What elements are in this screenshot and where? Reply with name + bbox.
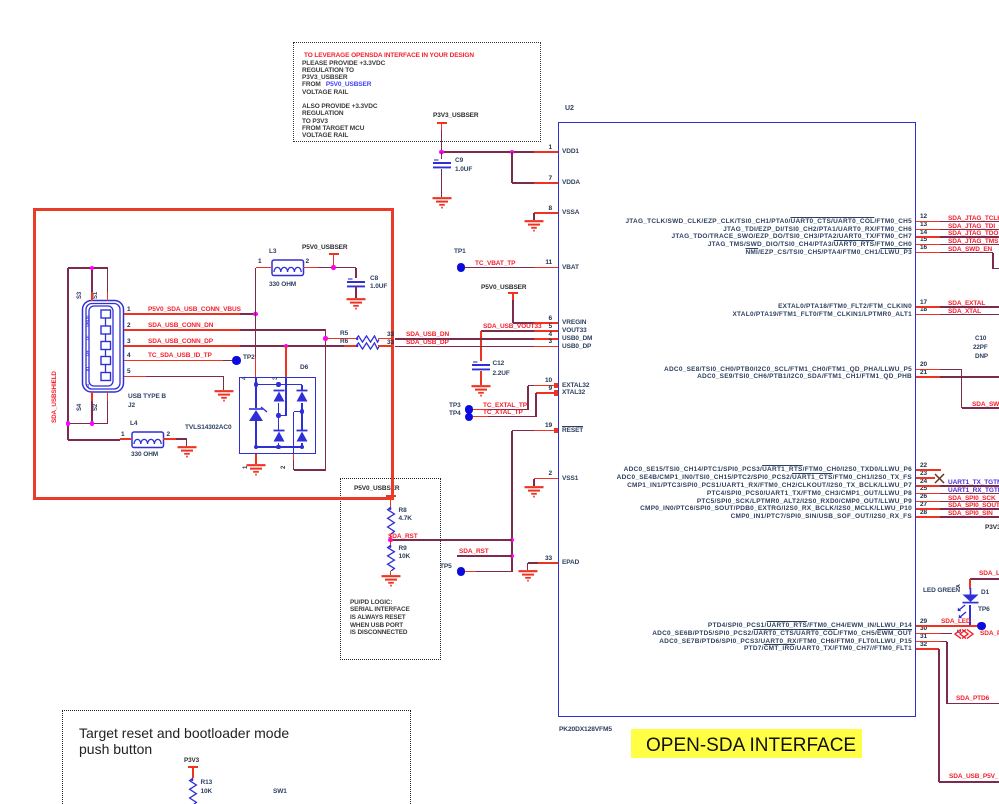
pin name JTAG_TMS [708, 241, 912, 248]
wire TP5 [465, 571, 476, 573]
net label SDA_XTAL [948, 308, 981, 315]
net label SDA_L anode [979, 570, 999, 577]
test point TP2 [232, 356, 240, 364]
inductor L3 [269, 248, 276, 255]
pin stub pin18 [916, 314, 940, 316]
pin number 7 [548, 175, 552, 182]
pin number 20 [920, 361, 927, 368]
wire XTAL32 to TP4 [535, 393, 537, 417]
pin number 23 [920, 470, 927, 477]
pin stub pin31 [916, 641, 941, 643]
connector pin number 3 [127, 338, 131, 345]
pin number 4 [548, 331, 552, 338]
no-connect X pin23 [934, 473, 945, 484]
dashed box target reset pushbutton [62, 710, 411, 804]
pin name VDDA [562, 179, 580, 186]
shield stub S1 top [107, 292, 109, 301]
ground EPAD [517, 570, 539, 584]
pin name EXTAL32 [562, 382, 589, 389]
pin stub VDD1 pin1 [534, 151, 558, 153]
pin stub VBAT pin11 [534, 267, 558, 269]
pin name EPAD [562, 559, 579, 566]
pin stub VSS1 pin2 [534, 478, 558, 480]
net label SDA_USBSHIELD [51, 371, 58, 423]
wire UART1_RX_TGTMCU [940, 493, 999, 495]
wire DN elbow to R5 [325, 330, 327, 339]
wire SDA_RST from divider [391, 539, 513, 541]
pin name CMP0_IN1 [731, 513, 912, 520]
D6 column1 mid link [278, 403, 279, 431]
shield stub S4 bottom [91, 392, 93, 401]
net label SDA_SW [972, 401, 999, 408]
D6 pin 1 stub to ground [255, 454, 257, 464]
inductor L4 [130, 420, 137, 427]
pin stub VOUT33 pin5 [534, 330, 558, 332]
D6 internal left rail [255, 377, 256, 408]
note text block 1 [302, 60, 385, 67]
resistor R6 [340, 338, 348, 345]
pin number 32 [920, 641, 927, 648]
net label SDA_PTD6 [956, 695, 989, 702]
test point TP4 [449, 410, 461, 417]
pin stub at y501.5 [916, 501, 940, 503]
pin number 21 [920, 369, 927, 376]
shield stub S2 bottom [107, 392, 109, 401]
LED D1 anode stub [969, 579, 971, 589]
connector pin label ID [85, 367, 90, 371]
D6 diode 1 top-left [272, 389, 286, 403]
pin name CMP0_IN0 [640, 505, 912, 512]
wire VDDA branch [511, 152, 513, 183]
wire SDA_JTAG_TCLK [940, 221, 999, 223]
net label SDA_JTAG_TMS [948, 238, 998, 245]
pin name VSSA [562, 209, 579, 216]
pin number 12 [920, 213, 927, 220]
connector J2 USB TYPE B symbol [80, 298, 127, 395]
shield left rail SDA_USBSHIELD [67, 268, 69, 440]
pin number 28 [920, 509, 927, 516]
wire TP1 to VBAT [465, 267, 534, 269]
diode array D6 body [239, 377, 316, 454]
wire R8 to R9 [390, 534, 392, 545]
net label TC_SDA_USB_ID_TP [148, 352, 212, 359]
red highlight box USB connector region [33, 208, 394, 500]
shield label S3 [77, 292, 83, 299]
pin stub pin21 [916, 376, 940, 378]
pin stub VSSA pin8 [534, 212, 558, 214]
junction DP/D6 [284, 344, 289, 349]
net label P5V0_SDA_USB_CONN_VBUS [148, 306, 241, 313]
D6 pin number 3 [273, 377, 279, 380]
value 33 R5 [387, 331, 394, 338]
pin name JTAG_TDI [723, 226, 912, 233]
ground VSS1 [523, 486, 545, 500]
pin stub pin32 [916, 648, 939, 650]
note box: dotted instruction box [293, 42, 541, 142]
wire SDA_LED anode [970, 578, 999, 580]
pin stub VREGIN pin6 [534, 322, 558, 324]
pin number 9 [548, 385, 552, 392]
D6 diode 3 top-right [301, 385, 302, 392]
pin name PTD7 [744, 645, 912, 652]
wire SDA_SWD_EN [940, 252, 993, 254]
pin number 8 [548, 205, 552, 212]
LED cathode wire [969, 605, 971, 627]
pin stub pin22 [916, 469, 941, 471]
test point TP6 label [978, 606, 990, 613]
wire L3 branch vertical [255, 268, 257, 315]
ground R9 [380, 575, 402, 589]
wire VSSA to ground [533, 213, 535, 220]
note text red line [304, 52, 474, 59]
net label SDA_USB_CONN_DP [148, 338, 213, 345]
pin number 27 [920, 501, 927, 508]
dashed box PU/PD logic [340, 478, 441, 660]
pin name VREGIN [562, 319, 586, 326]
wire pin4 ID to TP2 [124, 360, 224, 362]
IC U2 body [558, 122, 916, 717]
pin name ADC0_SE7B [659, 638, 912, 645]
connector pin label D+ [85, 351, 90, 356]
pin number 1 [548, 144, 552, 151]
ground C9 [431, 197, 453, 211]
net label SDA_SPI0_SOUT [948, 502, 999, 509]
D6 node dots [254, 382, 258, 386]
D6 column2 mid link [301, 403, 302, 412]
wire pin20 to SDA_SW [940, 369, 962, 371]
wire SDA_EXTAL [940, 306, 999, 308]
pin number 30 [920, 625, 927, 632]
LED D1 [962, 588, 979, 605]
pin name ADC0_SE8 [664, 366, 912, 373]
pin name ADC0_SE6B [652, 630, 912, 637]
pin name EXTAL0 [778, 303, 912, 310]
net label SDA_RST at divider [388, 533, 418, 540]
power label P3V3 partial [985, 524, 999, 531]
net label SDA_USB_CONN_DN [148, 322, 213, 329]
pin stub pin at y221.5 [916, 221, 940, 223]
wire pin1 VBUS [124, 313, 241, 315]
pin stub EPAD pin33 [538, 562, 558, 564]
net label UART1_TX_TGTMCU [948, 479, 999, 486]
pin number 14 [920, 229, 927, 236]
D6 pin number 4 [242, 377, 248, 380]
cathode marker C [957, 629, 963, 633]
net label SDA_SPI0_SIN [948, 510, 993, 517]
wire D6 pin2 elbow [294, 469, 326, 471]
pin number 31 [920, 633, 927, 640]
junction shield bottom left [66, 421, 71, 426]
wire pin3 DP [124, 345, 241, 347]
wire VOUT33 [481, 330, 534, 332]
wire C9 to ground [441, 169, 443, 197]
pin stub pin at y237 [916, 236, 940, 238]
pin number 2 [548, 470, 552, 477]
pin number 16 [920, 244, 927, 251]
note text block 2 [302, 103, 377, 110]
pin stub VDDA pin7 [534, 182, 558, 184]
LED arrows [954, 604, 969, 620]
ground C12 [470, 385, 492, 399]
wire L3 to C8 [318, 267, 356, 269]
ground L4 [176, 446, 198, 460]
pin stub pin16 [916, 252, 940, 254]
junction RESET/SDA_RST rail [510, 538, 515, 543]
wire SDA_SPI0_SIN [940, 516, 999, 518]
wire EXTAL32 to TP3 [528, 385, 534, 387]
ground USB pin5 [213, 390, 235, 404]
refdes J2 [128, 402, 135, 409]
wire C8 to ground [355, 286, 357, 298]
offpage connector symbol [954, 629, 974, 639]
pin stub USB0_DP pin3 [534, 346, 558, 348]
net label SDA_USB_DP [406, 339, 449, 346]
net label SDA_JTAG_TCLK [948, 215, 999, 222]
wire SDA_SPI0_SOUT [940, 508, 999, 510]
wire SDA_JTAG_TDO [940, 236, 999, 238]
resistor R5 [340, 330, 348, 337]
pin name USB0_DP [562, 343, 591, 350]
text target reset title [79, 725, 289, 741]
wire SDA_RST label stub [457, 555, 512, 557]
refdes SW1 [273, 788, 287, 795]
pin number 22 [920, 462, 927, 469]
pin name USB0_DM [562, 335, 592, 342]
pin name XTAL32 [562, 389, 585, 396]
pin stub at y493.5 [916, 493, 940, 495]
pin stub pin23 [916, 477, 935, 479]
text USB TYPE B [128, 393, 166, 400]
junction SDA_RST divider [388, 538, 393, 543]
wire SDA_USB_DP [395, 346, 534, 348]
wire P5V0_USBSER to VREGIN [512, 300, 514, 323]
pin number 17 [920, 299, 927, 306]
pin stub pin30 [916, 633, 941, 635]
net label UART1_RX_TGTMCU [948, 487, 999, 494]
title highlight OPEN-SDA INTERFACE [631, 729, 862, 758]
pin name RESET [562, 427, 583, 434]
wire SDA_XTAL [940, 314, 999, 316]
PU/PD note text [350, 599, 392, 606]
value 33 R6 [387, 339, 394, 346]
refdes U2 [565, 105, 574, 112]
pin stub at y509 [916, 508, 940, 510]
wire L4 to ground [176, 438, 187, 440]
power flag P5V0_USBSER in PU/PD box [354, 485, 400, 492]
test point TP6 [977, 622, 985, 630]
net label SDA_EXTAL [948, 300, 985, 307]
D6 diode 2 bottom-left [272, 429, 286, 443]
pin number 10 [545, 377, 552, 384]
pin number 18 [920, 306, 927, 313]
wire SDA_USB_DN [395, 338, 534, 340]
capacitor C9 [441, 152, 443, 159]
junction RESET/SDA_RST label [510, 554, 515, 559]
net label SDA_USB_DN [406, 331, 449, 338]
wire R9 to ground [390, 571, 392, 575]
pin number 24 [920, 478, 927, 485]
shield label S4 [77, 404, 83, 411]
pin stub at y486 [916, 485, 940, 487]
wire C12 to ground [480, 371, 482, 385]
connector pin number 5 [127, 368, 131, 375]
wire SDA_PTD6 [941, 641, 947, 643]
net label SDA_JTAG_TDI [948, 223, 995, 230]
pin name ADC0_SE15 [624, 466, 912, 473]
net label SDA_USB_VOUT33 [483, 323, 542, 330]
wire SDA_SPI0_SCK [940, 501, 999, 503]
pin stub at y517 [916, 516, 940, 518]
ground VSSA [523, 220, 545, 234]
wire SDA_JTAG_TDI [940, 229, 999, 231]
connector pin number 2 [127, 322, 131, 329]
junction at C9 [439, 150, 444, 155]
shield label S1 [93, 292, 99, 299]
pin name PTC4 [707, 490, 912, 497]
pin stub pin17 [916, 306, 940, 308]
net label SDA_USB_P5V [949, 773, 998, 780]
junction shield bottom mid [90, 421, 95, 426]
pin stub pin at y229.5 [916, 229, 940, 231]
shield stub S3 top [91, 292, 93, 301]
junction VBUS/L3 [253, 312, 258, 317]
wire pin30 to offpage [941, 633, 952, 635]
test point TP3 [449, 402, 461, 409]
refdes D1 [981, 589, 989, 596]
pin stub pin20 [916, 369, 940, 371]
wire pin2 DN [124, 329, 241, 331]
D6 TVS diode [246, 405, 268, 425]
shield top rail [68, 267, 108, 269]
net label TC_EXTAL_TP [483, 402, 527, 409]
pin number 5 [548, 323, 552, 330]
anode marker A [956, 584, 962, 588]
junction DN/R5 [323, 336, 328, 341]
net label SDA_RST near TP5 [459, 548, 489, 555]
power flag P3V3 [184, 757, 199, 764]
capacitor C12 [469, 361, 493, 373]
net label SDA_SWD_EN [948, 246, 992, 253]
junction shield top [90, 266, 95, 271]
pin stub RESET pin19 [534, 430, 558, 432]
D6 bottom rail [256, 446, 302, 447]
pin stub USB0_DM pin4 [534, 338, 558, 340]
wire VDD1 rail [442, 151, 535, 153]
text LED GREEN [923, 587, 960, 594]
capacitor C10 value labels [975, 335, 986, 342]
resistor R9 [386, 545, 396, 571]
junction at VDDA branch [510, 150, 515, 155]
net label TC_VBAT_TP [475, 260, 515, 267]
power flag P5V0_USBSER at VREGIN [481, 284, 527, 291]
net label SDA_SPI0_SCK [948, 495, 996, 502]
pin name VSS1 [562, 475, 578, 482]
pin name JTAG_TCLK [625, 218, 912, 225]
pin name VDD1 [562, 148, 579, 155]
wire EPAD to ground [528, 562, 539, 564]
pin name JTAG_TDO [672, 233, 912, 240]
D6 pin 2 stub [293, 454, 295, 460]
junction L3/power [331, 265, 336, 270]
pin number 33 [545, 555, 552, 562]
pin name PTC5 [697, 498, 912, 505]
wire VOUT33 down to C12 [480, 331, 482, 361]
pin stub EXTAL32 pin10 [534, 385, 558, 387]
pin number 6 [548, 315, 552, 322]
wire VSS1 to ground [533, 479, 535, 486]
pin name XTAL0 [732, 311, 912, 318]
pin name ADC0_SE4B [617, 474, 912, 481]
pin name CMP1_IN1 [627, 482, 912, 489]
power flag P5V0_USBSER at L3 [302, 244, 348, 251]
connector pin label VBUS [85, 315, 90, 327]
pin number 15 [920, 236, 927, 243]
wire SDA_USB_P5V [938, 649, 940, 782]
wire VBUS down to D6 pin4 [255, 314, 257, 358]
wire pin5 to ground [124, 376, 147, 378]
connector pin label G [85, 383, 90, 386]
wire pin21 [940, 376, 999, 378]
ground C8 [345, 298, 367, 312]
pin number 13 [920, 221, 927, 228]
net label SDA_P offpage [980, 630, 999, 637]
wire UART1_TX_TGTMCU [940, 485, 999, 487]
net label SDA_JTAG_TDO [948, 230, 998, 237]
pin name VOUT33 [562, 327, 587, 334]
pin name VBAT [562, 264, 579, 271]
wire P3V3_USBSER to VDD1 rail [441, 130, 443, 152]
wire DP down to D6 pin3 [285, 346, 287, 377]
connector pin label D- [85, 336, 90, 340]
ground D6 [245, 464, 267, 478]
pin name ADC0_SE9 [697, 373, 912, 380]
pin number 3 [548, 338, 552, 345]
resistor R13 [188, 778, 198, 804]
pin number 11 [545, 259, 552, 266]
refdes D6 [300, 364, 308, 371]
D6 top rail [256, 384, 302, 385]
pin number 29 [920, 618, 927, 625]
net label SDA_LED [941, 618, 971, 625]
connector pin number 4 [127, 352, 131, 359]
pin stub pin29 wire to TP6 [916, 625, 977, 627]
pin stub XTAL32 pin9 [536, 392, 558, 394]
D6 diode 4 bottom-right [301, 412, 302, 432]
test point TP5 [440, 563, 452, 570]
wire shield to L4 [68, 439, 120, 441]
capacitor C8 [355, 268, 357, 279]
shield label S2 [93, 404, 99, 411]
pin stub pin at y244.5 [916, 244, 940, 246]
wire SDA_JTAG_TMS [940, 244, 999, 246]
pin number 25 [920, 485, 927, 492]
pin name PTD4 [708, 622, 912, 629]
test point TP1 [454, 248, 466, 255]
pin name NMI [745, 249, 912, 256]
pin number 26 [920, 493, 927, 500]
pin number 19 [545, 422, 552, 429]
resistor R8 [386, 507, 396, 534]
shield bottom rail [68, 423, 108, 425]
wire RESET [512, 430, 534, 432]
net label TC_XTAL_TP [483, 409, 523, 416]
power flag P3V3_USBSER [433, 112, 479, 119]
part number PK20DX128VFM5 [559, 726, 612, 733]
part number TVLS14302AC0 [185, 424, 232, 431]
connector pin number 1 [127, 306, 131, 313]
